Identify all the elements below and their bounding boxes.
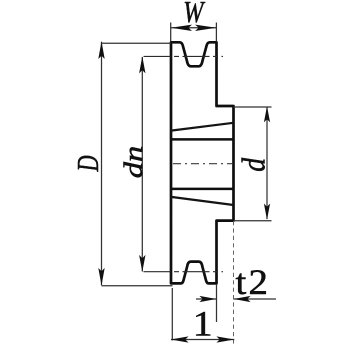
dimension d extension lines: [234, 107, 272, 221]
dimension W extension lines: [171, 23, 217, 42]
svg-text:D: D: [71, 155, 105, 172]
svg-text:W: W: [183, 0, 206, 30]
pitch line top groove: [144, 55, 224, 57]
taper keyway top line: [171, 123, 234, 131]
svg-text:t2: t2: [236, 263, 271, 302]
svg-text:dn: dn: [120, 146, 148, 178]
dimension D line with arrows: [98, 41, 104, 285]
taper keyway bottom line: [171, 197, 234, 205]
dimension t2 line with arrows (pointing inward): [196, 296, 276, 302]
bore bottom line: [171, 188, 234, 191]
dimension W line with arrows: [171, 25, 217, 31]
bore top line: [171, 138, 234, 141]
dimension d line with arrows: [264, 106, 270, 220]
dimension dn line with arrows: [139, 56, 145, 272]
dimension D extension lines: [102, 43, 173, 285]
pulley outer profile with top V-groove, hub step and bottom groove: [171, 42, 234, 283]
svg-text:d: d: [235, 157, 272, 172]
svg-text:1: 1: [193, 304, 213, 344]
dimension t2 extension lines: [217, 221, 234, 346]
dimension l extension line left: [171, 288, 173, 341]
dimension l line with arrows: [171, 336, 235, 342]
pitch line bottom groove: [144, 271, 224, 273]
horizontal bore centerline: [173, 163, 232, 165]
